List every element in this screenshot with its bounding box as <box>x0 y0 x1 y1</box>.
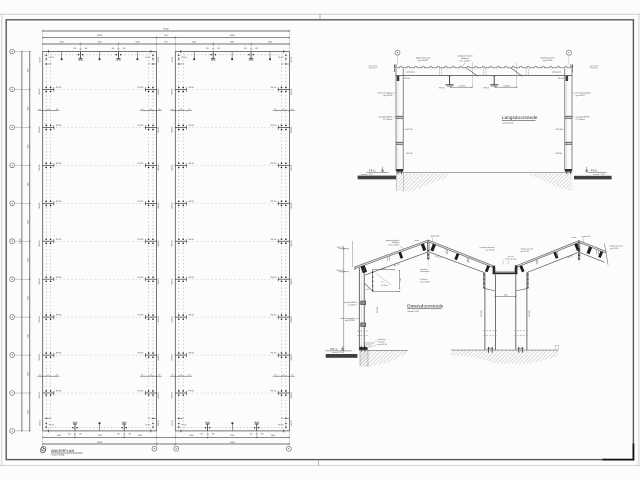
dwars middle hatch <box>451 351 558 364</box>
dwars haunch bottom <box>364 283 373 291</box>
wall thickness dim hall A right y=376.2 <box>140 375 162 377</box>
column anchor hall B left wall row 3 <box>172 125 194 133</box>
svg-text:PEIL: PEIL <box>591 168 599 172</box>
svg-text:M20 425: M20 425 <box>158 420 160 426</box>
label dakplaat left <box>416 57 430 62</box>
svg-text:IPE 360: IPE 360 <box>138 277 144 279</box>
svg-text:IPE 360: IPE 360 <box>56 239 62 241</box>
svg-text:16200: 16200 <box>97 35 102 37</box>
column anchor hall B left wall row 8 <box>172 314 194 322</box>
svg-text:M20: M20 <box>74 48 77 50</box>
svg-text:M20 425: M20 425 <box>172 316 174 322</box>
svg-text:IPE 360: IPE 360 <box>138 353 144 355</box>
top wall midspan mark x=61.6 <box>61 52 63 61</box>
svg-text:3795: 3795 <box>28 410 30 414</box>
svg-text:295: 295 <box>180 375 183 377</box>
svg-text:140: 140 <box>49 418 52 420</box>
rafter section 2 <box>484 62 518 89</box>
top wall midspan mark x=270.0 <box>269 52 271 61</box>
corner detail bottom A-right <box>145 418 160 433</box>
svg-text:IPE 360: IPE 360 <box>404 78 410 80</box>
svg-text:koppelplaat: koppelplaat <box>420 268 428 271</box>
langsdoorsnede title <box>502 115 538 124</box>
left grid bubble row 5 <box>10 201 30 206</box>
svg-text:M20 425: M20 425 <box>158 240 160 246</box>
svg-text:140: 140 <box>181 418 184 420</box>
column anchor hall B right wall row 9 <box>271 352 293 360</box>
svg-text:IPE 360: IPE 360 <box>271 239 277 241</box>
svg-text:M20 425: M20 425 <box>158 126 160 132</box>
column anchor hall B right wall row 6 <box>271 238 293 246</box>
svg-text:100: 100 <box>291 109 294 111</box>
roof sheet left end cap <box>394 65 396 72</box>
svg-text:4600: 4600 <box>189 435 193 437</box>
svg-text:gordingsplaat: gordingsplaat <box>552 71 562 74</box>
svg-text:M20 425: M20 425 <box>158 278 160 284</box>
svg-text:M20 425: M20 425 <box>291 126 293 132</box>
right column anchor bolts <box>567 172 570 175</box>
dwars title <box>407 304 444 313</box>
dwars koppelplaat under apex <box>420 268 430 284</box>
mid pier left <box>485 273 496 350</box>
corner detail top A-left <box>39 50 54 65</box>
svg-text:3795: 3795 <box>28 258 30 262</box>
left grid bubble row 9 <box>10 353 30 358</box>
svg-text:goot verzinkt: goot verzinkt <box>369 65 378 68</box>
svg-text:295: 295 <box>150 375 153 377</box>
svg-text:UNP 160: UNP 160 <box>556 153 563 155</box>
rafter bottom slope4 <box>580 253 604 263</box>
ridge1 splice plate <box>428 242 430 268</box>
svg-text:IPE 360: IPE 360 <box>138 163 144 165</box>
left grid bubble row 8 <box>10 315 30 320</box>
dwars dim v1500 <box>399 270 402 289</box>
langsdoorsnede right column <box>565 69 572 172</box>
frame fold mark top <box>319 14 321 20</box>
bottom grid bubble C <box>174 446 179 451</box>
dwars ridge2 labels <box>571 235 590 243</box>
svg-text:IPE 360: IPE 360 <box>271 277 277 279</box>
bottom grid bubble B <box>152 446 157 451</box>
svg-text:UNP 160: UNP 160 <box>406 153 413 155</box>
bottom wall column x=207.6 <box>201 422 215 436</box>
svg-text:7200: 7200 <box>230 435 234 437</box>
roof brace diagonal 1 <box>466 68 478 77</box>
column anchor hall A left wall row 3 <box>39 125 61 133</box>
top dim line halls <box>42 35 290 38</box>
svg-text:M20 425: M20 425 <box>291 240 293 246</box>
svg-text:M20 425: M20 425 <box>39 164 41 170</box>
rafter bottom slope2 <box>430 252 485 273</box>
svg-text:bk 6720 +P: bk 6720 +P <box>590 68 598 70</box>
left dim line overall <box>20 51 23 432</box>
rafter bottom slope3 <box>527 253 578 273</box>
svg-text:IPE 140: IPE 140 <box>249 60 254 62</box>
svg-text:M20 425: M20 425 <box>291 57 293 63</box>
dwars dakplaat right of valley <box>521 248 534 253</box>
column anchor hall A right wall row 8 <box>138 314 160 322</box>
dwars level dim line <box>337 246 349 351</box>
svg-text:IPE 270: IPE 270 <box>484 87 490 89</box>
left column foundation outline <box>396 173 403 191</box>
svg-text:100: 100 <box>56 375 59 377</box>
svg-text:100: 100 <box>274 375 277 377</box>
column anchor hall A left wall row 6 <box>39 238 61 246</box>
column anchor hall A left wall row 7 <box>39 276 61 284</box>
column anchor hall A right wall row 10 <box>138 390 160 398</box>
left foundation hatch <box>396 173 448 191</box>
column anchor hall B right wall row 8 <box>271 314 293 322</box>
hall B outline <box>175 52 289 431</box>
svg-text:295: 295 <box>150 109 153 111</box>
purlin slope2 valley <box>485 265 490 272</box>
svg-text:UNP 160: UNP 160 <box>556 129 563 131</box>
svg-text:3795: 3795 <box>28 106 30 110</box>
svg-text:1060: 1060 <box>504 294 508 296</box>
svg-text:gevelregel UNP160: gevelregel UNP160 <box>344 301 357 304</box>
svg-text:M20: M20 <box>68 434 71 436</box>
left grid bubble row 3 <box>10 125 30 130</box>
top wall midspan mark x=194.2 <box>193 52 195 61</box>
svg-text:295: 295 <box>283 375 286 377</box>
svg-text:100: 100 <box>158 375 161 377</box>
svg-text:760: 760 <box>383 268 386 270</box>
svg-text:M20: M20 <box>218 48 221 50</box>
corner detail top A-right <box>145 50 160 65</box>
svg-text:IPE 360: IPE 360 <box>189 87 195 89</box>
svg-text:100: 100 <box>188 375 191 377</box>
svg-text:IPE 360: IPE 360 <box>271 353 277 355</box>
svg-text:maaiveld + 120 P: maaiveld + 120 P <box>593 174 605 176</box>
svg-text:stalen damwandplaat: stalen damwandplaat <box>576 92 592 95</box>
svg-text:5400: 5400 <box>268 41 272 43</box>
svg-text:ANKERPLAN: ANKERPLAN <box>51 449 74 453</box>
purlin dashed mark x=527.3 <box>526 68 528 75</box>
svg-text:C/C 1800mm: C/C 1800mm <box>383 119 393 121</box>
svg-text:IPE 360: IPE 360 <box>189 391 195 393</box>
roof eaves beam line <box>395 75 572 77</box>
purlin slope2 ridge <box>430 244 436 252</box>
svg-text:100: 100 <box>171 375 174 377</box>
bottom wall column x=124.2 <box>117 422 131 436</box>
svg-text:R.v.K. 1200mm: R.v.K. 1200mm <box>389 245 400 247</box>
top dim extension lines <box>43 29 290 51</box>
frame fold mark bottom <box>318 460 320 466</box>
svg-text:IPE 360: IPE 360 <box>271 87 277 89</box>
svg-text:IPE 140: IPE 140 <box>211 60 216 62</box>
svg-text:0.5x75mm: 0.5x75mm <box>381 285 389 287</box>
label gording middle <box>458 55 474 67</box>
svg-text:M20: M20 <box>79 434 82 436</box>
svg-text:5400: 5400 <box>60 41 64 43</box>
svg-text:M20 425: M20 425 <box>39 420 41 426</box>
svg-text:140: 140 <box>181 64 184 66</box>
svg-text:IPE 360: IPE 360 <box>138 87 144 89</box>
svg-text:schaal 1:20: schaal 1:20 <box>502 123 514 125</box>
svg-text:IPE 360: IPE 360 <box>189 353 195 355</box>
dwars rafter end plate <box>372 270 373 292</box>
svg-text:IPE 360: IPE 360 <box>56 277 62 279</box>
purlin slope3 mid <box>553 252 558 259</box>
label goot verzinkt right <box>590 65 599 70</box>
stiffeners slope1 <box>388 256 390 261</box>
svg-text:stalen damwandplaat: stalen damwandplaat <box>377 92 393 95</box>
svg-text:5400: 5400 <box>98 41 102 43</box>
top dim line overall <box>42 29 290 32</box>
frame corner heavy segment bottom-right <box>603 444 635 461</box>
left grid bubble row 2 <box>10 87 30 92</box>
wall thickness dim hall B left y=376.2 <box>170 375 192 377</box>
svg-text:UNP 160: UNP 160 <box>406 129 413 131</box>
wall thickness dim hall B right y=376.2 <box>273 375 295 377</box>
stiffeners slope3b <box>556 251 558 256</box>
svg-text:Dwarsdoorsnede: Dwarsdoorsnede <box>407 304 443 309</box>
eave left tail <box>354 267 356 270</box>
valley gutter <box>493 265 518 274</box>
svg-text:IPE 360: IPE 360 <box>56 353 62 355</box>
svg-text:M20 425: M20 425 <box>158 392 160 398</box>
purlin slope2 mid <box>454 253 459 260</box>
purlin slope3 valley <box>520 265 525 272</box>
svg-text:M20 425: M20 425 <box>172 278 174 284</box>
bottom grid bubble D <box>287 446 292 451</box>
dwars gording label <box>386 239 404 249</box>
svg-text:z.c.l: z.c.l <box>381 282 384 284</box>
svg-text:maaiveld + 120 P: maaiveld + 120 P <box>361 174 373 176</box>
roof slope 3 sheet <box>517 241 579 268</box>
left column labels <box>377 92 412 156</box>
svg-text:M20: M20 <box>244 48 247 50</box>
roof slope 4 sheet <box>579 241 606 254</box>
svg-text:IPE 360: IPE 360 <box>56 163 62 165</box>
bottom wall column x=256.7 <box>250 422 264 436</box>
svg-text:nokstuk: nokstuk <box>414 239 419 242</box>
purlin slope4 ridge <box>587 247 593 255</box>
svg-text:16200: 16200 <box>230 442 235 444</box>
stiffeners slope2a <box>446 249 448 254</box>
svg-text:IPE 360: IPE 360 <box>56 391 62 393</box>
svg-text:295: 295 <box>47 109 50 111</box>
column anchor hall A right wall row 7 <box>138 276 160 284</box>
hall A wall inner dashed horizontals <box>44 55 155 428</box>
svg-text:M20 425: M20 425 <box>39 354 41 360</box>
hall A wall inner dashed verticals <box>46 53 153 429</box>
column anchor hall A right wall row 2 <box>138 87 160 95</box>
svg-text:100: 100 <box>39 109 42 111</box>
svg-text:140: 140 <box>49 64 52 66</box>
svg-text:IPE 360: IPE 360 <box>481 310 483 316</box>
left grid bubble row 7 <box>10 277 30 282</box>
dwars left pier hatch <box>360 351 368 367</box>
svg-text:7437 +P: 7437 +P <box>337 247 344 249</box>
wall thickness dim hall B right y=110.7 <box>273 109 295 111</box>
svg-text:M20 425: M20 425 <box>172 88 174 94</box>
column anchor hall B left wall row 9 <box>172 352 194 360</box>
svg-text:maaiveld + 120x P: maaiveld + 120x P <box>332 352 344 354</box>
svg-text:100: 100 <box>158 109 161 111</box>
label goot verzinkt left <box>369 65 378 70</box>
top wall column x=251.1 <box>244 48 258 62</box>
purlin slope1 ridge <box>421 244 426 252</box>
column anchor hall A left wall row 8 <box>39 314 61 322</box>
svg-text:IPE 360: IPE 360 <box>56 201 62 203</box>
svg-text:IPE 270: IPE 270 <box>439 87 445 89</box>
svg-text:PEIL: PEIL <box>330 347 338 351</box>
bottom wall midspan mark x=232.4 <box>232 422 234 431</box>
wall thickness dim hall A left y=376.2 <box>37 375 59 377</box>
dwars left column <box>359 267 364 347</box>
svg-text:100: 100 <box>274 109 277 111</box>
left dim line rows <box>28 51 31 432</box>
svg-text:IPE 360: IPE 360 <box>181 57 186 59</box>
column anchor hall A left wall row 9 <box>39 352 61 360</box>
purlin dashed mark x=484.8 <box>484 68 486 75</box>
svg-text:4600: 4600 <box>57 435 61 437</box>
svg-text:M20 425: M20 425 <box>158 316 160 322</box>
svg-text:M20: M20 <box>261 434 264 436</box>
svg-text:3795: 3795 <box>28 296 30 300</box>
left grid bubble row 1 <box>10 49 30 54</box>
bottom dim line halls <box>42 442 290 445</box>
svg-text:wandregel UNP160: wandregel UNP160 <box>379 116 393 118</box>
top wall column x=213.2 <box>206 48 220 62</box>
svg-text:M20 425: M20 425 <box>172 420 174 426</box>
column anchor hall B right wall row 4 <box>271 162 293 170</box>
svg-text:M20 425: M20 425 <box>291 164 293 170</box>
hall A outline <box>43 52 157 431</box>
svg-text:M20 425: M20 425 <box>172 164 174 170</box>
svg-text:gording 140Z: gording 140Z <box>431 234 440 237</box>
svg-text:M20 425: M20 425 <box>39 240 41 246</box>
corner detail top B-left <box>172 50 187 65</box>
svg-text:goot verzinkt: goot verzinkt <box>590 65 599 68</box>
svg-text:IPE 140: IPE 140 <box>122 422 127 424</box>
purlin slope3 ridge <box>574 243 580 251</box>
svg-text:100: 100 <box>56 109 59 111</box>
svg-text:5400: 5400 <box>230 41 234 43</box>
stiffeners slope2b <box>467 258 469 263</box>
corner detail bottom B-left <box>172 418 187 433</box>
svg-text:IPE 360: IPE 360 <box>138 315 144 317</box>
mid pier concrete marks <box>484 331 529 336</box>
dwars small tick right <box>555 345 560 350</box>
column anchor hall A left wall row 5 <box>39 200 61 208</box>
svg-text:IPE 360: IPE 360 <box>271 163 277 165</box>
svg-text:140: 140 <box>281 64 284 66</box>
svg-text:C/C 1800mm: C/C 1800mm <box>576 119 586 121</box>
top wall midspan mark x=137.4 <box>137 52 139 61</box>
left grid bubble row 6 <box>10 239 30 244</box>
right PEIL marker <box>585 167 606 176</box>
svg-text:IPE 360: IPE 360 <box>377 307 379 313</box>
svg-text:IPE 140: IPE 140 <box>72 422 77 424</box>
plan title ANKERPLAN <box>51 449 83 456</box>
dwars dim lower <box>372 291 400 292</box>
svg-text:IPE 360: IPE 360 <box>529 310 531 316</box>
column anchor hall B right wall row 10 <box>271 390 293 398</box>
svg-text:M20 425: M20 425 <box>39 202 41 208</box>
svg-text:type 35/1035: type 35/1035 <box>543 59 553 62</box>
bottom wall midspan mark x=99.6 <box>99 422 101 431</box>
svg-text:4 M bouten: 4 M bouten <box>420 278 427 281</box>
mid pier right <box>516 273 527 350</box>
svg-text:100: 100 <box>141 109 144 111</box>
svg-text:16200: 16200 <box>97 442 102 444</box>
left grid bubble row 4 <box>10 163 30 168</box>
svg-text:1870: 1870 <box>164 35 168 37</box>
svg-text:M20 425: M20 425 <box>291 354 293 360</box>
svg-text:IPE 360: IPE 360 <box>189 125 195 127</box>
bottom wall column x=75.0 <box>68 422 82 436</box>
plan title bubble <box>40 448 45 453</box>
svg-text:36240: 36240 <box>163 29 169 31</box>
svg-text:M20 425: M20 425 <box>172 240 174 246</box>
svg-text:M20 425: M20 425 <box>291 392 293 398</box>
column anchor hall A left wall row 2 <box>39 87 61 95</box>
hall B wall inner dashed horizontals <box>177 55 288 428</box>
column anchor hall B right wall row 5 <box>271 200 293 208</box>
svg-text:IPE 360: IPE 360 <box>558 78 564 80</box>
langsdoorsnede grid bubble left <box>395 50 400 64</box>
purlin dashed mark x=440.6 <box>439 68 441 75</box>
label dakplaat right <box>540 57 554 62</box>
svg-text:M20 425: M20 425 <box>172 392 174 398</box>
svg-text:dakplaat damwand: dakplaat damwand <box>521 248 534 251</box>
dwars level extension vertical <box>352 241 354 267</box>
mid pier IPE labels <box>481 310 531 316</box>
svg-text:M20 425: M20 425 <box>39 392 41 398</box>
svg-text:100: 100 <box>141 375 144 377</box>
svg-text:IPE 360: IPE 360 <box>145 57 150 59</box>
left column anchor bolts <box>398 172 401 175</box>
svg-text:M20 425: M20 425 <box>172 354 174 360</box>
dwars PEIL marker <box>325 346 352 354</box>
column anchor hall A right wall row 6 <box>138 238 160 246</box>
svg-text:IPE 360: IPE 360 <box>189 315 195 317</box>
svg-text:IPE 140: IPE 140 <box>116 60 121 62</box>
svg-text:5400: 5400 <box>136 41 140 43</box>
hall B grid row dashed centerlines <box>185 89 280 393</box>
svg-text:1870: 1870 <box>164 41 168 43</box>
corner detail bottom A-left <box>39 418 54 433</box>
svg-text:3795: 3795 <box>28 69 30 73</box>
svg-text:IPE 270: IPE 270 <box>567 255 573 259</box>
svg-text:IPE 360: IPE 360 <box>189 277 195 279</box>
svg-text:IPE 360: IPE 360 <box>138 391 144 393</box>
svg-text:M20 425: M20 425 <box>172 57 174 63</box>
dwars znk label <box>503 255 517 265</box>
svg-text:5060 +P: 5060 +P <box>337 270 344 272</box>
svg-text:h.o.h. 1200mm: h.o.h. 1200mm <box>459 61 471 63</box>
roof slope 1 sheet <box>355 240 428 269</box>
svg-text:M20 425: M20 425 <box>39 316 41 322</box>
dwars anchor notes <box>365 338 387 347</box>
svg-text:M20: M20 <box>117 434 120 436</box>
svg-text:IPE 360: IPE 360 <box>189 201 195 203</box>
svg-text:M20 425: M20 425 <box>39 88 41 94</box>
svg-text:± 5400mm: ± 5400mm <box>503 85 511 87</box>
roof corrugated sheet <box>395 66 573 68</box>
svg-text:ankerbouten: ankerbouten <box>378 338 386 341</box>
column anchor hall B left wall row 7 <box>172 276 194 284</box>
column anchor hall B left wall row 4 <box>172 162 194 170</box>
svg-text:16200: 16200 <box>230 35 235 37</box>
svg-text:gordingsplaat: gordingsplaat <box>406 71 416 74</box>
svg-text:M20 425: M20 425 <box>291 278 293 284</box>
dwars girt plate 1 <box>361 301 366 305</box>
dwars left column concrete marks <box>358 331 369 336</box>
svg-text:M20: M20 <box>255 48 258 50</box>
